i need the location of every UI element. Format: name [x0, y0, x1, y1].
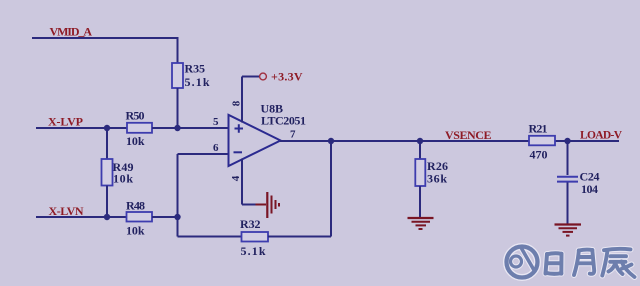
- wire feedback to R32: [178, 236, 242, 238]
- junction feedback / R48: [174, 214, 180, 220]
- ground at pin 4 (right-facing): [256, 192, 280, 218]
- svg-text:10k: 10k: [113, 172, 133, 186]
- resistor R32 body: [242, 232, 269, 242]
- power port +3.3V circle: [260, 73, 267, 80]
- wire R26 bottom to ground: [419, 186, 421, 217]
- svg-text:LTC2051: LTC2051: [261, 114, 306, 128]
- junction output / R32 feedback: [328, 138, 334, 144]
- svg-text:36k: 36k: [427, 172, 447, 186]
- wire pin 4 to ground: [242, 204, 256, 206]
- svg-text:5: 5: [213, 116, 219, 128]
- watermark character YUE: [574, 250, 594, 275]
- wire pin 8 up: [241, 77, 243, 123]
- junction output / C24: [564, 138, 570, 144]
- wire R49 bottom to X-LVN: [106, 186, 108, 218]
- wire VMID_A down to R35: [177, 37, 179, 63]
- resistor R35 body: [172, 63, 183, 88]
- resistor R49 body: [102, 159, 113, 186]
- resistor R26 body: [415, 159, 425, 186]
- ground below R26: [408, 218, 434, 229]
- resistor R21 body: [529, 136, 555, 146]
- wire R35 bottom to X-LVP line: [177, 88, 179, 128]
- junction X-LVN / R49: [104, 214, 110, 220]
- svg-text:+3.3V: +3.3V: [271, 70, 303, 84]
- op-amp minus input marker: [234, 151, 243, 153]
- wire X-LVP to R50: [36, 127, 127, 129]
- wire op-amp pin 6 stub: [178, 153, 229, 155]
- svg-text:R48: R48: [126, 199, 145, 213]
- wire R32 to output column: [268, 236, 331, 238]
- svg-text:4: 4: [230, 175, 242, 181]
- wire R48 to feedback node: [152, 216, 178, 218]
- watermark logo circle: [507, 247, 538, 278]
- wire C24 top: [567, 141, 569, 175]
- svg-text:104: 104: [581, 182, 598, 196]
- wire C24 bottom to ground: [567, 183, 569, 225]
- junction X-LVP / R49: [104, 125, 110, 131]
- svg-text:VSENCE: VSENCE: [445, 128, 492, 142]
- svg-text:10k: 10k: [126, 224, 145, 238]
- svg-text:470: 470: [530, 148, 548, 162]
- wire op-amp output pin 7 to LOAD-V: [280, 140, 619, 142]
- wire pin 8 to +3.3V port: [242, 76, 259, 78]
- wire R26 top: [419, 141, 421, 159]
- op-amp plus input marker: [235, 124, 244, 132]
- resistor R48 body: [127, 212, 153, 222]
- junction R35 / pin5 line: [174, 125, 180, 131]
- wire feedback vertical: [177, 154, 179, 237]
- svg-text:R50: R50: [126, 109, 145, 123]
- watermark character CHEN: [602, 249, 634, 277]
- svg-text:6: 6: [213, 142, 219, 154]
- wire VMID_A horizontal: [32, 37, 178, 39]
- capacitor C24 plates: [557, 177, 578, 182]
- resistor R50 body: [127, 123, 152, 133]
- wire X-LVN to R48: [36, 216, 127, 218]
- svg-text:X-LVN: X-LVN: [49, 204, 84, 218]
- wire pin 4 down: [241, 159, 243, 205]
- junction output / R26: [417, 138, 423, 144]
- svg-text:LOAD-V: LOAD-V: [580, 130, 623, 142]
- watermark character RI: [546, 253, 562, 274]
- svg-text:R21: R21: [529, 122, 548, 136]
- svg-text:10k: 10k: [126, 134, 145, 148]
- svg-text:7: 7: [290, 129, 296, 141]
- wire output column up: [330, 141, 332, 237]
- op-amp U8B triangle: [229, 115, 281, 166]
- svg-text:X-LVP: X-LVP: [48, 115, 83, 129]
- svg-text:R32: R32: [240, 217, 261, 231]
- svg-text:5.1k: 5.1k: [241, 244, 266, 258]
- svg-text:8: 8: [231, 100, 243, 106]
- ground below C24: [555, 225, 582, 236]
- wire R49 top: [106, 128, 108, 159]
- svg-text:R35: R35: [185, 62, 206, 76]
- wire R50 to op-amp pin 5: [152, 127, 229, 129]
- svg-text:VMID_A: VMID_A: [50, 25, 93, 39]
- svg-text:5.1k: 5.1k: [185, 75, 210, 89]
